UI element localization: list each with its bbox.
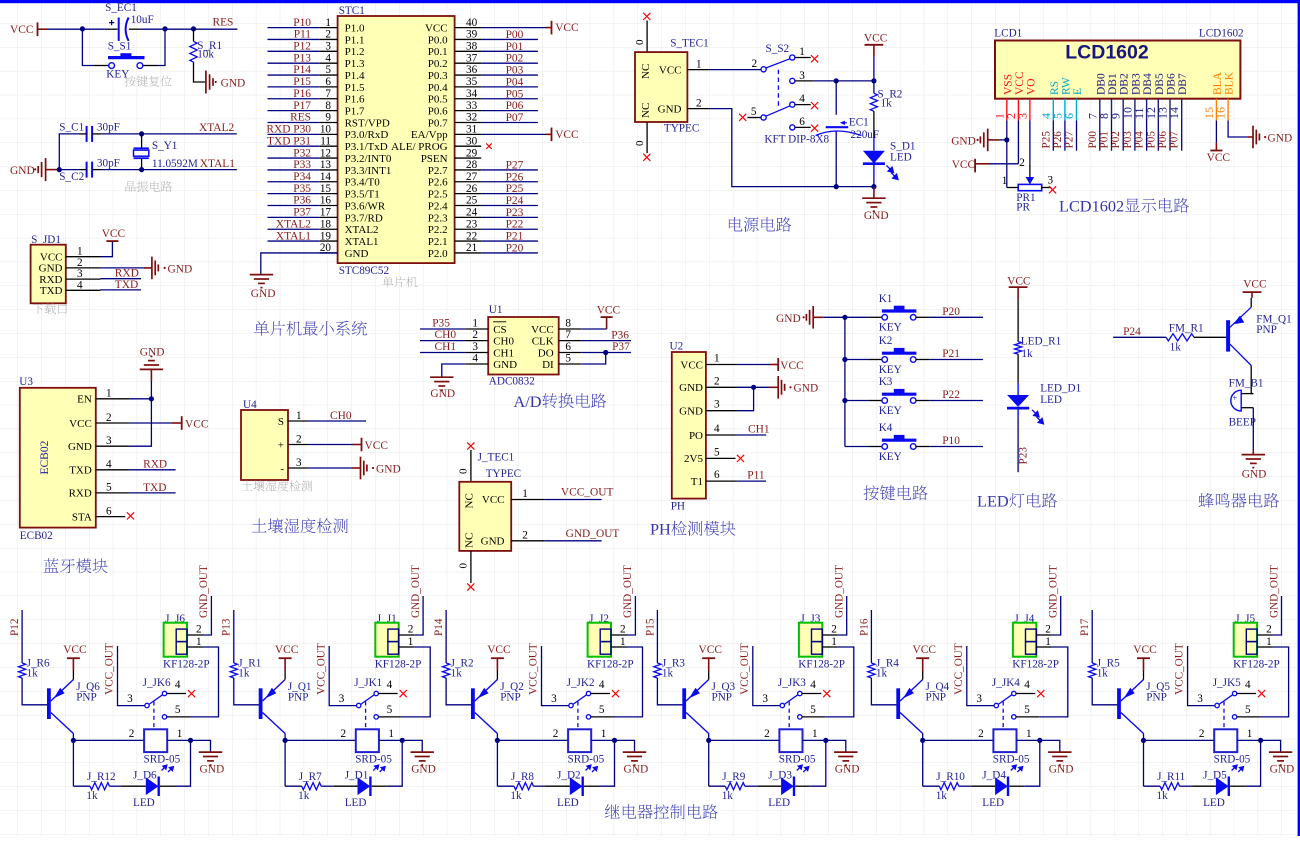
- pin 32 P0.7: [455, 121, 482, 123]
- wire VCC (U4): [308, 444, 353, 446]
- svg-text:J_R12: J_R12: [87, 771, 116, 783]
- svg-text:GND: GND: [1270, 764, 1295, 776]
- svg-text:K2: K2: [879, 335, 893, 347]
- svg-text:2: 2: [1199, 728, 1205, 740]
- svg-text:TXD: TXD: [115, 279, 138, 291]
- resistor J_R8 1k: [514, 783, 534, 790]
- svg-text:P03: P03: [1122, 131, 1134, 149]
- svg-text:K3: K3: [879, 376, 893, 388]
- wire net P11 left: [268, 38, 320, 40]
- svg-text:27: 27: [466, 171, 478, 183]
- svg-text:J_D6: J_D6: [133, 770, 157, 782]
- svg-text:DB2: DB2: [1119, 73, 1131, 95]
- wire VCC_OUT (J_JK6): [118, 646, 146, 706]
- svg-text:6: 6: [1062, 113, 1076, 119]
- svg-text:PNP: PNP: [76, 692, 97, 704]
- svg-text:GND_OUT: GND_OUT: [1268, 565, 1280, 618]
- ground GND (S_JD1): [101, 267, 145, 269]
- junction button K3: [842, 398, 847, 403]
- svg-text:1: 1: [1002, 175, 1008, 187]
- sheet border top: [0, 0, 1300, 3]
- svg-text:J_D3: J_D3: [768, 770, 792, 782]
- svg-text:10uF: 10uF: [131, 14, 154, 26]
- wire net RES left: [268, 121, 320, 123]
- pin 14 P3.4/T0: [320, 181, 338, 183]
- svg-text:13: 13: [320, 159, 332, 171]
- svg-text:1: 1: [620, 636, 626, 648]
- svg-text:BLA: BLA: [1212, 71, 1224, 95]
- wire VCC_OUT (J_JK2): [542, 646, 570, 706]
- wire J_R10 to J_D4: [959, 785, 972, 787]
- svg-text:BEEP: BEEP: [1229, 417, 1256, 429]
- svg-text:4: 4: [106, 459, 112, 471]
- wire lcd pin 8: [1111, 121, 1113, 151]
- wire GND pin20: [261, 253, 338, 275]
- svg-text:S_S2: S_S2: [766, 43, 790, 55]
- wire net P17: [1091, 610, 1093, 663]
- svg-text:J_JK5: J_JK5: [1213, 677, 1241, 689]
- svg-text:VCC: VCC: [40, 252, 63, 264]
- pin 15 P3.5/T1: [320, 193, 338, 195]
- ground GND (mcu): [250, 275, 273, 288]
- svg-text:P00: P00: [1087, 131, 1099, 149]
- svg-text:3: 3: [339, 693, 345, 705]
- svg-text:1k: 1k: [1021, 348, 1033, 360]
- pin 21 P2.0: [455, 252, 482, 254]
- svg-text:3: 3: [762, 693, 768, 705]
- no-connect STA (U3): [127, 512, 134, 519]
- svg-text:VCC: VCC: [699, 644, 722, 656]
- svg-text:J_R8: J_R8: [511, 771, 534, 783]
- svg-text:1k: 1k: [936, 790, 948, 802]
- svg-text:P11: P11: [294, 29, 312, 41]
- transistor J_Q6 PNP: [47, 688, 51, 719]
- svg-text:GND_OUT: GND_OUT: [1048, 565, 1060, 618]
- svg-text:LED_D1: LED_D1: [1040, 382, 1081, 394]
- svg-text:VCC: VCC: [1207, 152, 1230, 164]
- svg-text:TXD: TXD: [40, 285, 63, 297]
- svg-text:1: 1: [408, 636, 414, 648]
- wire button bus: [844, 317, 846, 446]
- wire base (J_Q3): [657, 678, 682, 705]
- capacitor S_EC1 10uF: [119, 18, 129, 41]
- link dashed (J_JK3): [788, 702, 790, 728]
- svg-text:P2.7: P2.7: [428, 165, 448, 177]
- wire net P36 left: [268, 205, 320, 207]
- title PH检测模块: [650, 520, 735, 539]
- svg-text:VCC: VCC: [487, 644, 510, 656]
- svg-text:2: 2: [341, 728, 347, 740]
- svg-text:J_D5: J_D5: [1203, 770, 1227, 782]
- svg-text:1: 1: [177, 728, 183, 740]
- transistor J_Q3 PNP: [682, 688, 686, 719]
- svg-text:3: 3: [472, 341, 478, 353]
- svg-text:P2.6: P2.6: [428, 177, 448, 189]
- svg-text:1: 1: [1026, 728, 1032, 740]
- svg-text:P01: P01: [506, 41, 524, 53]
- svg-text:P1.2: P1.2: [345, 46, 365, 58]
- svg-text:14: 14: [320, 171, 332, 183]
- svg-text:2: 2: [106, 412, 112, 424]
- wire net P01 right: [481, 50, 538, 52]
- svg-text:34: 34: [466, 88, 478, 100]
- wire net P24: [1113, 336, 1166, 338]
- wire net P16 left: [268, 98, 320, 100]
- led J_D3 LED: [781, 777, 794, 795]
- svg-text:GND: GND: [624, 764, 649, 776]
- svg-text:P26: P26: [506, 171, 524, 183]
- svg-text:LCD1: LCD1: [994, 28, 1022, 40]
- svg-text:4: 4: [175, 679, 181, 691]
- relay SRD-05 (J_J4): [993, 729, 1016, 752]
- ground GND (J_J5): [1261, 740, 1281, 752]
- svg-text:39: 39: [466, 29, 478, 41]
- svg-text:2: 2: [978, 728, 984, 740]
- svg-text:VCC: VCC: [69, 418, 92, 430]
- svg-text:10k: 10k: [197, 49, 214, 61]
- pin 7 P1.6: [320, 98, 338, 100]
- svg-text:23: 23: [466, 218, 478, 230]
- junction collector (J_Q2): [495, 738, 500, 743]
- svg-text:P16: P16: [293, 88, 311, 100]
- crystal S_Y1 11.0592M: [141, 134, 143, 148]
- wire VCC to switch: [708, 69, 761, 71]
- no-connect 2V5 (U2): [737, 455, 744, 462]
- junction collector (J_Q6): [71, 738, 76, 743]
- power port VCC (S_JD1): [101, 241, 113, 257]
- svg-text:1: 1: [1045, 636, 1051, 648]
- wire TXD: [101, 289, 142, 291]
- wire J_D4 to relay node: [1009, 785, 1024, 787]
- wire net P21: [929, 359, 983, 361]
- svg-text:DB5: DB5: [1154, 73, 1166, 95]
- svg-text:P20: P20: [506, 242, 524, 254]
- svg-text:P0.4: P0.4: [428, 82, 448, 94]
- svg-text:ECB02: ECB02: [39, 440, 51, 474]
- svg-text:NC: NC: [463, 493, 475, 508]
- resistor J_R7 1k: [302, 783, 322, 790]
- svg-text:U3: U3: [19, 376, 33, 388]
- no-connect J_JK3 pin4: [823, 690, 830, 697]
- wire relay coil left: [923, 739, 994, 741]
- svg-text:VCC: VCC: [597, 304, 620, 316]
- svg-text:J_D4: J_D4: [982, 770, 1006, 782]
- svg-text:5: 5: [1024, 704, 1030, 716]
- svg-text:PNP: PNP: [1256, 324, 1277, 336]
- svg-text:CH0: CH0: [330, 410, 352, 422]
- svg-text:5: 5: [714, 446, 720, 458]
- svg-text:XTAL1: XTAL1: [276, 230, 311, 242]
- pin 23 P2.2: [455, 228, 482, 230]
- resistor FM_R1 1k: [1166, 334, 1194, 341]
- svg-text:GND: GND: [679, 382, 703, 394]
- wire EN to GND node: [129, 398, 151, 400]
- svg-text:31: 31: [466, 124, 477, 136]
- svg-text:RXD: RXD: [69, 488, 92, 500]
- svg-text:LED: LED: [133, 797, 155, 809]
- svg-text:GND: GND: [679, 406, 703, 418]
- svg-text:2: 2: [764, 728, 770, 740]
- wire net P17 left: [268, 110, 320, 112]
- wire VCC_OUT (J_JK3): [753, 646, 781, 706]
- key switch K1 KEY: [845, 316, 869, 318]
- wire net P37 left: [268, 216, 320, 218]
- title 继电器控制电路: [605, 804, 718, 819]
- annotation 按键复位: [125, 76, 172, 87]
- svg-text:P2.5: P2.5: [428, 189, 448, 201]
- svg-text:5: 5: [175, 704, 181, 716]
- svg-text:30pF: 30pF: [97, 157, 120, 169]
- svg-text:5: 5: [106, 482, 112, 494]
- sheet border right: [1298, 0, 1300, 836]
- wire GND (U4): [308, 467, 352, 469]
- svg-text:P04: P04: [506, 76, 524, 88]
- led J_D6 LED: [146, 777, 159, 795]
- junction collector (J_Q4): [920, 738, 925, 743]
- wire RXD: [101, 278, 142, 280]
- svg-text:2: 2: [831, 624, 837, 636]
- wire S_C2 to XTAL1: [101, 169, 237, 171]
- pin 12 P3.2/INT0: [320, 157, 338, 159]
- svg-text:GND: GND: [10, 165, 35, 177]
- wire base (J_Q2): [446, 678, 471, 705]
- svg-text:9: 9: [325, 112, 331, 124]
- power port VCC (pin40): [481, 27, 546, 29]
- junction collector (J_Q1): [283, 738, 288, 743]
- wire net P35 left: [268, 193, 320, 195]
- wire shell bottom: [646, 122, 648, 153]
- wire P35 (U1): [420, 328, 466, 330]
- svg-text:J_JK2: J_JK2: [567, 677, 595, 689]
- svg-text:VCC_OUT: VCC_OUT: [1174, 643, 1186, 695]
- pin 37 P0.2: [455, 62, 482, 64]
- power port VCC (U3): [172, 422, 182, 424]
- wire relay coil left: [73, 739, 144, 741]
- capacitor EC1 220uF: [835, 81, 837, 115]
- svg-text:4: 4: [387, 679, 393, 691]
- svg-text:1k: 1k: [510, 790, 522, 802]
- wire RXD (U3): [129, 492, 175, 494]
- pin 33 P0.6: [455, 110, 482, 112]
- led S_D1 LED: [873, 111, 875, 138]
- wire J_D1 to relay node: [372, 785, 387, 787]
- svg-text:S_C2: S_C2: [59, 171, 84, 183]
- switch J_JK2 pin5: [586, 715, 590, 719]
- svg-text:+: +: [278, 439, 284, 451]
- svg-text:220uF: 220uF: [851, 129, 880, 141]
- svg-text:3: 3: [976, 693, 982, 705]
- svg-text:EA/Vpp: EA/Vpp: [411, 129, 448, 141]
- wire VCC (U2): [738, 364, 769, 366]
- power port VCC (U2): [769, 364, 778, 366]
- svg-text:LED: LED: [557, 797, 579, 809]
- resistor J_R5 1k: [1089, 663, 1096, 678]
- wire net P25 right: [481, 193, 538, 195]
- wire net P21 right: [481, 240, 538, 242]
- svg-text:P10: P10: [942, 435, 960, 447]
- svg-text:2: 2: [714, 375, 720, 387]
- svg-text:4: 4: [1024, 679, 1030, 691]
- svg-text:CS: CS: [493, 324, 506, 336]
- pin 10 P3.0/RxD: [320, 133, 338, 135]
- svg-text:P37: P37: [612, 341, 630, 353]
- svg-text:U1: U1: [489, 304, 503, 316]
- svg-text:KF128-2P: KF128-2P: [1012, 658, 1059, 670]
- wire relay right: [1237, 739, 1260, 741]
- relay SRD-05 (J_J3): [779, 729, 802, 752]
- svg-text:3: 3: [127, 693, 133, 705]
- svg-text:PNP: PNP: [926, 692, 947, 704]
- svg-text:XTAL2: XTAL2: [345, 224, 379, 236]
- svg-text:J_D1: J_D1: [345, 770, 369, 782]
- wire CH0 (U4): [308, 420, 366, 422]
- svg-text:S_D1: S_D1: [890, 140, 916, 152]
- svg-text:PNP: PNP: [288, 692, 309, 704]
- svg-text:P14: P14: [433, 618, 445, 636]
- svg-text:P3.2/INT0: P3.2/INT0: [345, 153, 392, 165]
- svg-text:CH0: CH0: [493, 336, 514, 348]
- wire lcd pin 11: [1146, 121, 1148, 151]
- wire net P06 right: [481, 110, 538, 112]
- svg-text:CH1: CH1: [435, 341, 457, 353]
- wire led branch down: [1143, 740, 1145, 786]
- power port VCC (U1): [581, 328, 606, 330]
- svg-text:RXD: RXD: [115, 267, 139, 279]
- svg-text:-: -: [280, 463, 284, 475]
- pin 8 P1.7: [320, 110, 338, 112]
- svg-text:2: 2: [77, 257, 83, 269]
- svg-text:GND: GND: [39, 263, 63, 275]
- svg-text:VCC: VCC: [531, 324, 554, 336]
- svg-text:5: 5: [565, 353, 571, 365]
- wire net P23 right: [481, 216, 538, 218]
- svg-text:1: 1: [77, 246, 83, 258]
- wire GND pin3 (U2): [738, 387, 754, 410]
- svg-text:P0.1: P0.1: [428, 46, 448, 58]
- wire P37 (U1): [581, 352, 631, 354]
- svg-text:P17: P17: [1079, 618, 1091, 636]
- wire net P10 left: [268, 27, 320, 29]
- wire led branch down: [284, 740, 286, 786]
- svg-text:VCC_OUT: VCC_OUT: [315, 643, 327, 695]
- wire S_C1 left: [59, 134, 79, 170]
- key switch K2 KEY: [845, 359, 869, 361]
- svg-text:3: 3: [1048, 175, 1054, 187]
- transistor J_Q5 PNP: [1117, 688, 1121, 719]
- svg-text:RS: RS: [1049, 81, 1061, 95]
- svg-text:P13: P13: [221, 618, 233, 636]
- svg-text:DB0: DB0: [1095, 73, 1107, 95]
- wire lcd pin15 BLA: [1215, 121, 1217, 143]
- svg-text:1: 1: [601, 728, 607, 740]
- no-connect PR1 pin3: [1049, 186, 1056, 193]
- svg-text:GND: GND: [430, 388, 455, 400]
- svg-text:1k: 1k: [451, 668, 463, 680]
- svg-text:P20: P20: [942, 306, 960, 318]
- no-connect J_JK5 pin4: [1258, 690, 1265, 697]
- pin 17 P3.7/RD: [320, 216, 338, 218]
- svg-text:EC1: EC1: [849, 117, 869, 129]
- wire net P00 right: [481, 38, 538, 40]
- wire relay coil left: [1144, 739, 1215, 741]
- svg-text:LCD1602: LCD1602: [1059, 197, 1124, 216]
- wire base (J_Q1): [234, 678, 259, 705]
- svg-text:E: E: [1072, 88, 1084, 95]
- wire net P32 left: [268, 157, 320, 159]
- pin 31 EA/Vpp: [455, 133, 482, 135]
- svg-text:P1.3: P1.3: [345, 58, 365, 70]
- svg-text:FM_B1: FM_B1: [1229, 377, 1264, 389]
- wire relay right: [167, 739, 190, 741]
- svg-text:1: 1: [522, 488, 528, 500]
- junction relay pin1: [1258, 738, 1263, 743]
- svg-text:KF128-2P: KF128-2P: [1233, 658, 1280, 670]
- wire net XTAL1 left: [268, 240, 320, 242]
- pin 26 P2.5: [455, 193, 482, 195]
- svg-text:GND: GND: [411, 764, 436, 776]
- wire net P34 left: [268, 181, 320, 183]
- svg-text:P36: P36: [611, 329, 629, 341]
- no-connect J_JK6 pin4: [188, 690, 195, 697]
- transistor J_Q4 PNP: [896, 688, 900, 719]
- svg-text:1: 1: [325, 17, 331, 29]
- wire net P07 right: [481, 121, 538, 123]
- wire GND bottom: [708, 109, 874, 187]
- svg-text:P06: P06: [1157, 131, 1169, 149]
- wire net P27 right: [481, 169, 538, 171]
- wire S_C1 to XTAL2: [101, 133, 237, 135]
- svg-text:LED: LED: [977, 492, 1009, 511]
- capacitor S_C2 30pF: [57, 169, 59, 171]
- svg-text:4: 4: [810, 679, 816, 691]
- wire net RXD/P30 left: [268, 133, 320, 135]
- svg-text:P22: P22: [506, 219, 524, 231]
- wire lcd pin 5: [1064, 121, 1066, 151]
- title A/D转换电路: [514, 392, 607, 411]
- pin 4 P1.3: [320, 62, 338, 64]
- svg-text:TXD: TXD: [69, 465, 92, 477]
- svg-text:+: +: [1233, 394, 1238, 403]
- svg-text:LCD1602: LCD1602: [1199, 28, 1244, 40]
- wire net P33 left: [268, 169, 320, 171]
- svg-text:2: 2: [696, 98, 702, 110]
- svg-text:XTAL2: XTAL2: [276, 218, 311, 230]
- wire net P14: [445, 610, 447, 663]
- svg-text:3: 3: [106, 435, 112, 447]
- wire relay right: [591, 739, 614, 741]
- switch J_JK1 pin5: [374, 715, 378, 719]
- svg-text:32: 32: [466, 112, 477, 124]
- pin 3 P1.2: [320, 50, 338, 52]
- pin 28 P2.7: [455, 169, 482, 171]
- annotation 单片机: [382, 276, 417, 287]
- svg-text:VSS: VSS: [1002, 74, 1014, 95]
- svg-text:PNP: PNP: [712, 692, 733, 704]
- svg-text:P0.2: P0.2: [428, 58, 448, 70]
- power port VCC (lcd right): [1215, 143, 1217, 151]
- svg-text:25: 25: [466, 195, 478, 207]
- svg-text:P03: P03: [506, 65, 524, 77]
- ground GND (J_J2): [615, 740, 635, 752]
- svg-text:GND: GND: [794, 383, 819, 395]
- svg-text:4: 4: [77, 279, 83, 291]
- resistor S_R2 1k: [873, 81, 875, 93]
- svg-text:KEY: KEY: [879, 405, 902, 417]
- svg-text:P2.1: P2.1: [428, 236, 448, 248]
- svg-text:VCC: VCC: [659, 64, 682, 76]
- svg-text:35: 35: [466, 76, 478, 88]
- svg-text:1: 1: [812, 728, 818, 740]
